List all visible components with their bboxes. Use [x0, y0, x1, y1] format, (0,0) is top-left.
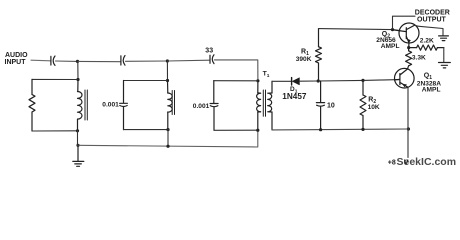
svg-text:T1: T1	[263, 71, 270, 80]
node tank1 bottom-right	[76, 129, 79, 132]
node tank2 top-right	[166, 79, 169, 82]
wire C2 to tank2 node	[125, 60, 167, 62]
ground at 2.2K	[439, 63, 451, 68]
diode D1 1N457	[292, 78, 300, 85]
wire tank1 node to C2	[78, 60, 121, 62]
svg-text:+8: +8	[388, 159, 396, 166]
node Q2 emitter	[407, 46, 410, 49]
capacitor C-in (input coupling)	[51, 56, 55, 65]
svg-text:390K: 390K	[296, 56, 312, 63]
wire tank2 drop	[166, 61, 168, 81]
capacitor C3 value 33	[210, 55, 214, 64]
wire ground bus	[78, 130, 258, 147]
ground at Q2 collector	[439, 36, 449, 41]
svg-text:1N457: 1N457	[282, 92, 307, 101]
capacitor tank3 left leg 0.001	[210, 81, 218, 131]
node AUDIO INPUT label	[5, 52, 29, 66]
svg-text:3.3K: 3.3K	[412, 54, 426, 61]
svg-text:AMPL: AMPL	[381, 43, 400, 50]
node junction tank1 top	[76, 60, 79, 63]
node R1 bottom	[317, 79, 320, 82]
svg-text:INPUT: INPUT	[5, 59, 27, 66]
node tank3 bottom-right	[256, 129, 259, 132]
resistor R1 390K	[316, 29, 322, 81]
resistor 2.2K	[409, 45, 444, 50]
node ground bus left	[76, 144, 79, 147]
svg-text:10: 10	[327, 103, 335, 110]
inductor L2 tank2 right leg	[168, 81, 175, 130]
node tank3 top-right	[256, 79, 259, 82]
wire Q1 emitter to +8V	[407, 87, 409, 157]
transistor Q1 2N328A	[395, 68, 415, 88]
svg-text:10K: 10K	[368, 104, 380, 111]
svg-text:V: V	[404, 159, 409, 166]
resistor tank1 left leg	[29, 79, 35, 131]
wire T1 secondary top to D1	[272, 80, 291, 82]
svg-text:0.001: 0.001	[102, 102, 119, 109]
wire tank3 top	[214, 80, 258, 82]
wire R1 top rail to Q2 base	[319, 29, 400, 31]
wire Q2 collector to ground	[415, 25, 443, 35]
wire tank2 node to C3	[167, 59, 209, 62]
svg-text:AMPL: AMPL	[422, 87, 441, 94]
resistor R2 10K	[360, 80, 366, 129]
wire D1 to R1 node	[299, 80, 318, 82]
wire supply bus	[272, 128, 408, 131]
wire tank1 drop	[77, 61, 79, 79]
node R2 top	[361, 79, 364, 82]
emitter arrow Q1	[402, 84, 407, 87]
svg-text:DECODER: DECODER	[415, 9, 450, 16]
wire R2 node to Q1 base	[363, 79, 400, 82]
node junction tank2 top	[166, 59, 169, 62]
wire tank2 bottom	[124, 129, 169, 131]
transformer T1	[257, 81, 272, 130]
wire R1 node to R2 node	[318, 79, 363, 82]
capacitor 10	[316, 81, 324, 130]
wire tank2 to ground bus	[167, 130, 169, 147]
node tank2 on bus	[166, 145, 169, 148]
wire output stub	[393, 16, 416, 29]
svg-text:33: 33	[205, 48, 213, 55]
node tank2 bottom-right	[166, 128, 169, 131]
transistor Q2 2N656	[393, 23, 420, 48]
resistor 3.3K	[406, 48, 412, 69]
inductor L1 tank1 right leg	[78, 80, 88, 131]
node R2 on bus	[361, 128, 364, 131]
wire input to C-in	[31, 59, 50, 62]
node output tap	[391, 28, 394, 31]
wire tank1 top	[32, 78, 78, 80]
wire tank3 bottom	[214, 129, 258, 131]
svg-text:0.001: 0.001	[193, 103, 210, 110]
wire C3 to T1 corner	[214, 60, 258, 81]
node cap10 on bus	[319, 128, 322, 131]
svg-text:OUTPUT: OUTPUT	[417, 17, 447, 24]
svg-text:2.2K: 2.2K	[420, 37, 434, 44]
wire C-in to tank1 node	[55, 60, 77, 62]
capacitor tank2 left leg 0.001	[120, 81, 128, 130]
label DECODER OUTPUT	[415, 9, 450, 23]
node tank1 top-right	[76, 78, 79, 81]
wire 2.2K to lower ground	[443, 48, 445, 62]
wire tank2 top	[124, 80, 168, 82]
ground symbol	[73, 145, 84, 166]
emitter arrow Q2	[407, 38, 411, 42]
capacitor C2 (series coupling)	[121, 56, 125, 66]
wire tank1 bottom	[32, 130, 78, 132]
wire tank1 to ground bus	[77, 131, 79, 146]
node supply bus	[407, 127, 410, 130]
